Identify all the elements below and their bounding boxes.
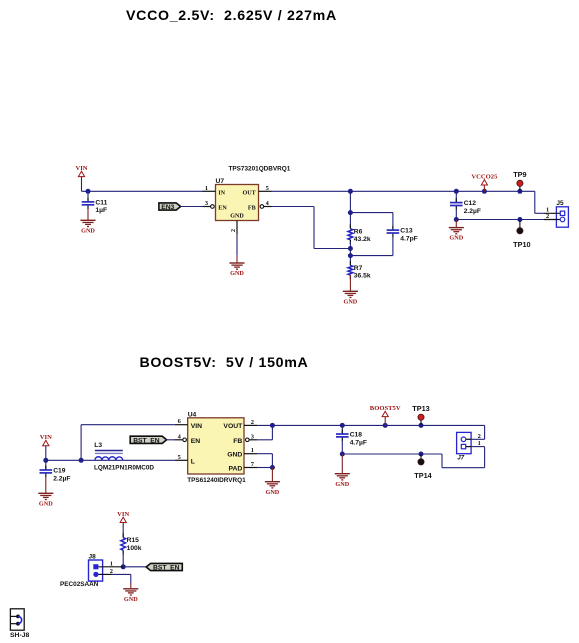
- svg-text:R7: R7: [354, 265, 363, 272]
- wire FB loop: [272, 207, 351, 249]
- wire TP14 stub: [420, 454, 422, 459]
- node junction VIN/C19: [43, 458, 48, 463]
- port BST_EN input: [130, 436, 166, 444]
- node junction C18/GND rail: [340, 452, 345, 457]
- test point TP10: [513, 228, 530, 249]
- pin 4 FB of U7: [248, 200, 272, 212]
- pin 1 IN of U7: [203, 185, 226, 197]
- svg-text:BOOST5V: BOOST5V: [370, 405, 401, 412]
- svg-text:GND: GND: [335, 481, 349, 488]
- pin 2 of J5: [544, 213, 565, 222]
- svg-text:GND: GND: [266, 489, 280, 496]
- power symbol VIN (input rail): [75, 165, 87, 177]
- pin 5 OUT of U7: [242, 185, 271, 197]
- capacitor C12 2.2uF: [450, 198, 481, 215]
- wire C19 to ground: [45, 477, 47, 493]
- svg-text:EN: EN: [218, 206, 227, 212]
- svg-text:LQM21PN1R0MC0D: LQM21PN1R0MC0D: [94, 465, 154, 472]
- svg-text:VIN: VIN: [191, 423, 202, 430]
- wire bypass to U4.VIN: [81, 425, 175, 461]
- node junction VIN/C11: [86, 189, 91, 194]
- ground GND under C19: [38, 493, 53, 507]
- svg-text:2: 2: [251, 419, 254, 426]
- svg-text:1µF: 1µF: [95, 207, 107, 214]
- wire U4 GND-PAD tie: [257, 454, 272, 468]
- wire TP13 stub: [420, 420, 422, 425]
- svg-text:TP10: TP10: [513, 240, 530, 249]
- svg-text:TP9: TP9: [513, 170, 526, 179]
- wire L3 to U4.L: [123, 459, 175, 461]
- node junction OUT/VCCO25: [482, 189, 487, 194]
- wire VIN2 drop: [45, 446, 47, 461]
- svg-text:1: 1: [205, 185, 208, 192]
- svg-text:4.7pF: 4.7pF: [400, 235, 417, 242]
- svg-text:U4: U4: [188, 411, 197, 418]
- power symbol BOOST5V output rail: [370, 405, 401, 417]
- wire VIN rail: [46, 459, 95, 461]
- svg-text:TP13: TP13: [412, 404, 429, 413]
- pin 3 EN of U7: [203, 200, 228, 212]
- svg-text:1: 1: [110, 560, 113, 567]
- svg-text:FB: FB: [233, 438, 242, 445]
- svg-text:OUT: OUT: [242, 190, 255, 196]
- node junction C12/GND rail: [454, 217, 459, 222]
- wire C18 top: [341, 425, 343, 434]
- wire J8 pin2 to ground: [112, 574, 131, 588]
- wire U4 FB loop: [257, 425, 272, 439]
- svg-text:3: 3: [205, 200, 208, 207]
- svg-text:EN: EN: [191, 438, 201, 445]
- pin 7 PAD of U4: [228, 461, 257, 472]
- inductor L3 LQM21PN1R0MC0D: [94, 442, 154, 471]
- wire BOOST5V stub: [384, 417, 386, 426]
- pin 1 of J8: [93, 560, 123, 569]
- svg-text:5: 5: [178, 454, 181, 461]
- svg-text:C13: C13: [400, 228, 413, 235]
- svg-text:C19: C19: [53, 468, 66, 475]
- wire VOUT rail: [257, 424, 485, 426]
- node junction VIN bypass: [79, 458, 84, 463]
- wire VIN3 to R15: [122, 523, 124, 538]
- pin 5 L of U4: [175, 454, 195, 466]
- wire node to BST_EN port: [123, 566, 146, 568]
- svg-text:BST_EN: BST_EN: [133, 437, 160, 444]
- svg-text:GND: GND: [230, 213, 244, 219]
- svg-text:GND: GND: [39, 500, 53, 507]
- svg-text:5: 5: [266, 185, 269, 192]
- node junction VOUT/FB: [270, 423, 275, 428]
- svg-text:J8: J8: [89, 554, 97, 561]
- svg-text:VCCO25: VCCO25: [471, 174, 498, 181]
- svg-text:GND: GND: [124, 596, 138, 603]
- svg-text:VIN: VIN: [117, 511, 129, 518]
- ground GND under U4 PAD: [265, 482, 280, 496]
- wire VOUT to J7 pin2: [471, 425, 485, 439]
- power symbol VIN boost input: [40, 434, 52, 446]
- pin 2 VOUT of U4: [223, 419, 257, 430]
- wire R7 to ground: [349, 275, 351, 291]
- wire C19 top: [45, 460, 47, 470]
- wire GND rail bottom: [342, 447, 484, 468]
- wire EN3 to U7.EN: [181, 206, 203, 208]
- wire BST_EN to U4.EN: [167, 439, 175, 441]
- svg-text:GND: GND: [344, 298, 358, 305]
- svg-text:1: 1: [478, 440, 481, 447]
- svg-text:TPS73201QDBVRQ1: TPS73201QDBVRQ1: [229, 166, 291, 173]
- node junction FB sense: [348, 246, 353, 251]
- wire C11 to ground: [87, 209, 89, 220]
- capacitor C18 4.7uF: [336, 430, 367, 447]
- svg-text:2: 2: [478, 433, 481, 440]
- ground GND under R7: [343, 291, 358, 305]
- wire PAD to ground: [271, 468, 273, 482]
- wire C18 to ground: [341, 454, 343, 473]
- pin 6 VIN of U4: [175, 418, 202, 430]
- power symbol VCCO25 output rail: [471, 174, 498, 186]
- port EN3 input: [159, 203, 181, 211]
- wire OUT rail to J5 pin1: [535, 191, 544, 213]
- op-amp U7 TPS73201QDBVRQ1 body: [216, 166, 291, 221]
- wire C18 bottom: [341, 441, 343, 454]
- node junction TP10: [517, 217, 522, 222]
- svg-text:43.2k: 43.2k: [354, 236, 371, 243]
- svg-text:VCCO_2.5V: 2.625V / 227mA: VCCO_2.5V: 2.625V / 227mA: [126, 8, 337, 24]
- svg-text:2.2µF: 2.2µF: [464, 208, 481, 215]
- capacitor C11 1uF: [82, 198, 108, 215]
- wire C12 bottom: [455, 210, 457, 220]
- svg-text:PEC02SAAN: PEC02SAAN: [60, 581, 99, 588]
- svg-text:IN: IN: [218, 190, 225, 196]
- connector SH-J8 shunt jumper: [10, 609, 29, 639]
- wire R6 to R7: [349, 242, 351, 266]
- pin 1 of J7: [461, 440, 481, 449]
- title BOOST5V rail heading: [140, 355, 309, 371]
- connector J8 body: [60, 554, 103, 589]
- svg-text:VOUT: VOUT: [223, 423, 243, 430]
- svg-text:C18: C18: [350, 432, 363, 439]
- wire R15 to node: [122, 550, 124, 567]
- ground GND under C11: [80, 220, 95, 234]
- node junction R6-top/C13: [348, 210, 353, 215]
- svg-text:FB: FB: [248, 206, 256, 212]
- op-amp U4 TPS61240IDRVRQ1 body: [187, 411, 246, 483]
- wire U7 GND pin down: [236, 234, 238, 263]
- node junction TP14: [419, 452, 424, 457]
- test point TP13: [412, 404, 429, 421]
- svg-text:PAD: PAD: [228, 465, 242, 472]
- svg-text:J5: J5: [556, 200, 564, 207]
- pin 1 GND of U4: [227, 447, 257, 458]
- ground GND under C12: [449, 228, 464, 242]
- wire TP9 stub: [519, 187, 521, 192]
- svg-text:R15: R15: [127, 537, 140, 544]
- wire VCCO25 stub: [483, 185, 485, 191]
- svg-text:1: 1: [251, 447, 254, 454]
- pin 2 GND of U7: [230, 213, 245, 234]
- svg-text:VIN: VIN: [40, 434, 52, 441]
- node junction PAD/GND: [270, 465, 275, 470]
- ground GND under C18: [335, 474, 350, 488]
- ground GND under J8: [123, 589, 138, 603]
- svg-text:100k: 100k: [127, 545, 142, 552]
- resistor R7 36.5k: [348, 261, 371, 279]
- capacitor C19 2.2uF: [40, 466, 71, 483]
- connector J7 body: [457, 432, 472, 461]
- svg-text:SH-J8: SH-J8: [10, 632, 29, 639]
- wire OUT rail: [272, 190, 535, 192]
- node junction OUT/C12: [454, 189, 459, 194]
- port BST_EN output: [146, 563, 182, 571]
- wire TP10 stub: [519, 220, 521, 228]
- wire C13 branch top: [350, 213, 393, 231]
- svg-text:R6: R6: [354, 228, 363, 235]
- node junction VOUT/C18: [340, 423, 345, 428]
- svg-text:VIN: VIN: [75, 165, 87, 172]
- svg-text:GND: GND: [227, 451, 242, 458]
- ground GND under U7: [229, 263, 244, 277]
- pin 2 of J8: [93, 568, 113, 577]
- svg-text:L: L: [191, 459, 195, 466]
- wire C11 top: [87, 191, 89, 202]
- svg-text:2.2µF: 2.2µF: [53, 475, 70, 482]
- pin 2 of J7: [461, 433, 481, 442]
- svg-text:36.5k: 36.5k: [354, 273, 371, 280]
- svg-text:2: 2: [546, 213, 549, 220]
- node junction OUT/R6: [348, 189, 353, 194]
- node junction VOUT/TP13: [419, 423, 424, 428]
- wire C12 top: [455, 191, 457, 202]
- title VCCO_2.5V rail heading: [126, 8, 337, 24]
- svg-text:GND: GND: [81, 227, 95, 234]
- svg-text:3: 3: [251, 433, 254, 440]
- node junction OUT/TP9: [517, 189, 522, 194]
- wire VIN drop: [82, 177, 204, 192]
- pin 4 EN of U4: [175, 433, 201, 445]
- resistor R15 100k: [121, 533, 142, 554]
- wire GND rail to J5 pin2: [456, 219, 544, 221]
- power symbol VIN pullup: [117, 511, 129, 523]
- capacitor C13 4.7pF: [387, 226, 418, 243]
- connector J5 body: [556, 200, 568, 227]
- svg-text:TPS61240IDRVRQ1: TPS61240IDRVRQ1: [187, 477, 246, 484]
- resistor R6 43.2k: [348, 225, 371, 245]
- svg-text:J7: J7: [457, 456, 464, 462]
- wire OUT to R6: [349, 191, 351, 228]
- svg-text:4.7µF: 4.7µF: [350, 439, 367, 446]
- pin 1 of J5: [544, 207, 565, 216]
- test point TP14: [414, 459, 432, 480]
- pin 3 FB of U4: [233, 433, 257, 445]
- node junction VOUT/BOOST5V: [383, 423, 388, 428]
- svg-text:GND: GND: [230, 270, 244, 277]
- svg-text:U7: U7: [216, 178, 225, 185]
- svg-text:BST_EN: BST_EN: [153, 565, 180, 572]
- svg-text:L3: L3: [94, 442, 102, 449]
- node junction C13 return: [348, 253, 353, 258]
- svg-text:BOOST5V: 5V / 150mA: BOOST5V: 5V / 150mA: [140, 355, 309, 371]
- svg-text:TP14: TP14: [414, 471, 432, 480]
- svg-text:GND: GND: [449, 235, 463, 242]
- node junction BST_EN: [121, 564, 126, 569]
- wire C13 branch bottom: [350, 237, 393, 256]
- svg-text:EN3: EN3: [161, 204, 174, 211]
- wire C12 to ground: [455, 220, 457, 228]
- svg-text:C11: C11: [95, 200, 107, 207]
- svg-text:2: 2: [230, 229, 237, 232]
- svg-text:C12: C12: [464, 200, 477, 207]
- test point TP9: [513, 170, 526, 187]
